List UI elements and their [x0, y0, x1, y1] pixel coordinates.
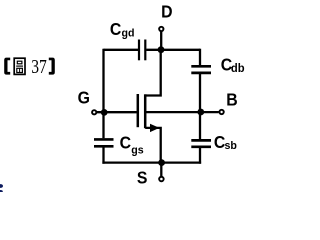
- svg-text:sb: sb: [225, 140, 238, 152]
- wire: D terminal stem: [160, 32, 162, 50]
- wire: bulk leg of M1 to B terminal: [145, 111, 219, 113]
- svg-text:G: G: [78, 88, 90, 108]
- figure caption 【圖 37】: [4, 55, 55, 77]
- label C_db: [221, 55, 245, 75]
- wire: gate lead from G terminal: [97, 111, 137, 113]
- left lenticular bracket: [4, 58, 10, 75]
- source arrowhead of M1: [150, 124, 159, 132]
- stray blue marks at left edge: [0, 184, 3, 188]
- wire: drain leg of M1: [145, 50, 161, 96]
- terminal G open circle: [92, 110, 96, 114]
- node G junction dot: [101, 109, 108, 116]
- label C_gd: [110, 19, 135, 39]
- terminal S open circle: [159, 177, 164, 182]
- wire: S terminal stem: [160, 163, 162, 176]
- capacitor C_gs plates: [94, 138, 114, 141]
- transistor M1 gate bar: [137, 94, 140, 127]
- wire: top rail right segment (Cgd to right branch): [146, 49, 200, 51]
- wire: bottom rail: [102, 161, 201, 163]
- wire: left branch upper (top rail down to Cgs): [102, 49, 104, 139]
- svg-text:D: D: [161, 1, 172, 21]
- capacitor C_gd plates: [138, 40, 140, 61]
- node B junction dot: [197, 109, 204, 116]
- label C_gs: [120, 132, 144, 156]
- CJK glyph 圖 (drawn): [14, 58, 25, 74]
- wire: right branch middle (Cdb to Csb): [199, 74, 201, 139]
- svg-text:C: C: [120, 132, 131, 152]
- svg-text:S: S: [137, 168, 148, 188]
- transistor M1 channel bar: [144, 94, 147, 128]
- label C_sb: [214, 132, 237, 152]
- wire: right branch upper (top rail to Cdb): [199, 49, 201, 65]
- capacitor C_db plates: [191, 65, 211, 68]
- svg-text:B: B: [226, 89, 237, 109]
- capacitor C_sb plates: [191, 139, 211, 142]
- wire: top rail left segment (drain rail to Cgd): [104, 49, 139, 51]
- svg-text:37: 37: [31, 55, 47, 77]
- right lenticular bracket: [49, 58, 55, 75]
- wire: right branch lower (Csb to bottom rail): [199, 148, 201, 164]
- svg-text:db: db: [231, 63, 245, 75]
- svg-text:C: C: [110, 19, 121, 39]
- terminal D open circle: [159, 27, 163, 31]
- node S junction dot: [158, 159, 165, 166]
- wire: source leg of M1: [145, 128, 161, 163]
- terminal B open circle: [219, 110, 223, 114]
- svg-text:gd: gd: [122, 27, 135, 39]
- wire: left branch lower (Cgs to bottom rail): [102, 147, 104, 163]
- node D junction dot: [158, 46, 165, 53]
- svg-text:gs: gs: [131, 144, 143, 156]
